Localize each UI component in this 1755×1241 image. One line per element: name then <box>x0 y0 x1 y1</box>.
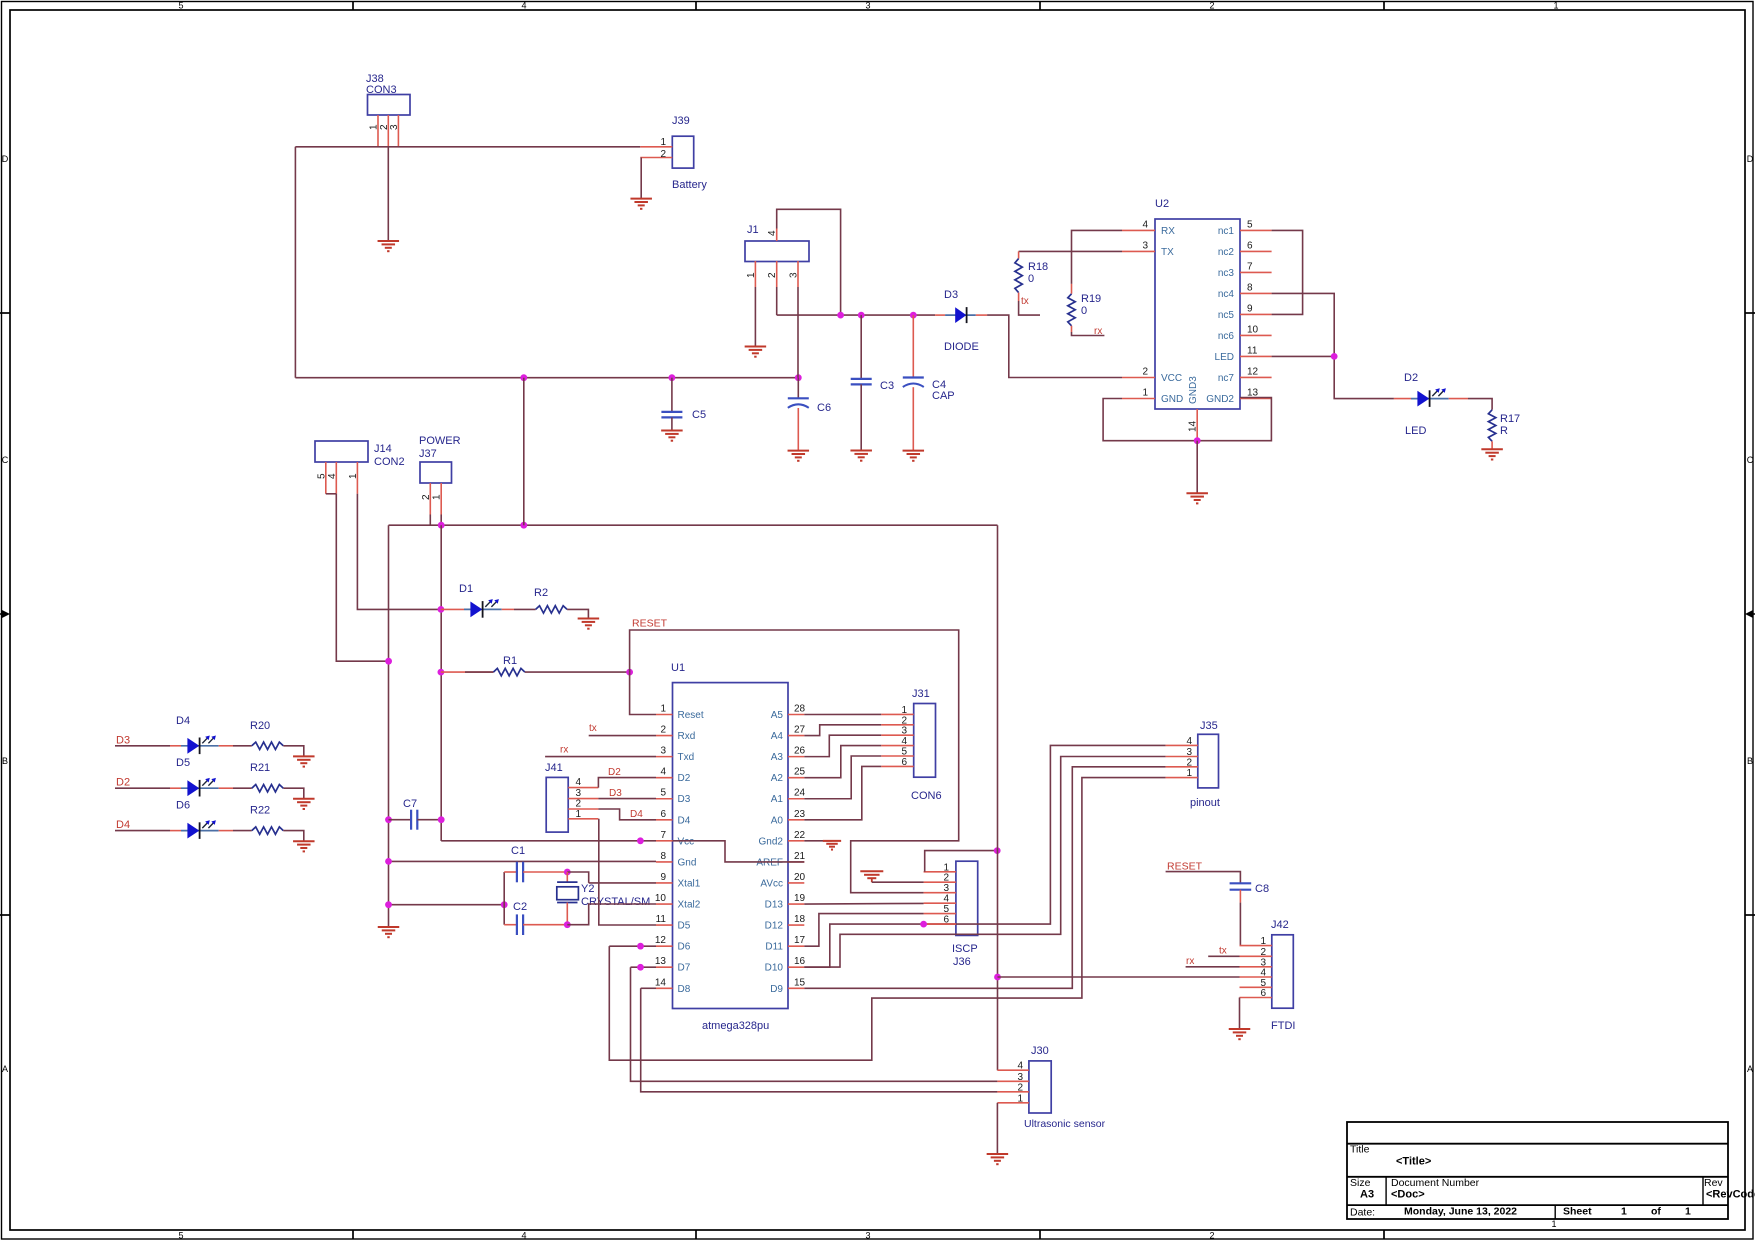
svg-text:4: 4 <box>1017 1061 1023 1072</box>
svg-text:20: 20 <box>794 872 806 883</box>
ground below C4 <box>903 451 925 461</box>
connector J39 Battery box <box>672 115 707 191</box>
svg-text:3: 3 <box>901 726 907 737</box>
svg-text:1: 1 <box>432 494 443 500</box>
net label D4 led row <box>116 819 130 831</box>
svg-text:J35: J35 <box>1200 720 1218 732</box>
wire A0 to J31 pin6 <box>804 766 881 819</box>
svg-text:D4: D4 <box>678 815 691 826</box>
svg-text:2: 2 <box>1186 757 1192 768</box>
wire D6 net <box>609 945 656 947</box>
svg-text:7: 7 <box>660 830 666 841</box>
svg-text:R19: R19 <box>1081 293 1101 305</box>
svg-text:6: 6 <box>1247 240 1253 251</box>
wire D13 to ISCP pin4 <box>804 902 923 905</box>
svg-text:B: B <box>2 756 8 766</box>
svg-text:FTDI: FTDI <box>1271 1020 1295 1032</box>
svg-text:2: 2 <box>767 272 778 278</box>
wire A1 to J31 pin5 <box>804 756 881 799</box>
junction dot Y2 bottom <box>564 921 571 928</box>
svg-text:rx: rx <box>1094 326 1102 337</box>
wire R22 to ground <box>283 831 304 842</box>
svg-text:1: 1 <box>1186 768 1192 779</box>
U1 pin 21 AREF <box>756 851 805 869</box>
connector J41 box <box>545 762 568 832</box>
wire J1 pin4 loop <box>777 209 841 315</box>
U1 pin 18 D12 <box>765 914 806 932</box>
svg-text:11: 11 <box>1247 345 1258 356</box>
svg-text:15: 15 <box>794 977 806 988</box>
U2 pin 10 nc6 <box>1218 324 1272 342</box>
svg-text:5: 5 <box>178 1231 183 1241</box>
capacitor C1 <box>504 845 567 882</box>
junction dot C3 top <box>858 312 865 319</box>
net label RESET C8 <box>1167 861 1203 873</box>
wire U2 pin14 to ground <box>1196 441 1198 494</box>
svg-text:13: 13 <box>655 956 667 967</box>
svg-text:D: D <box>2 154 9 164</box>
svg-text:Xtal1: Xtal1 <box>678 878 701 889</box>
wire x523 vertical <box>523 378 525 526</box>
svg-text:3: 3 <box>865 1231 870 1241</box>
capacitor C6 <box>788 378 831 451</box>
svg-text:C: C <box>1747 455 1754 465</box>
svg-text:A: A <box>1747 1064 1753 1074</box>
svg-text:D2: D2 <box>116 777 130 789</box>
wire D7 to J30 pin3 <box>631 967 998 1081</box>
resistor R21 <box>250 762 283 792</box>
wire R2 to ground <box>567 609 588 618</box>
svg-text:21: 21 <box>794 851 806 862</box>
net label tx R18 <box>1021 296 1029 307</box>
junction dot rail-C5 <box>669 374 676 381</box>
junction dot J1pin4 loop <box>837 312 844 319</box>
wire J38 pin2 to ground <box>387 147 389 241</box>
wire ISCP pin2 to ground <box>872 881 924 883</box>
wire rx to U1 Txd <box>545 745 656 757</box>
wire D4 net J41 <box>598 809 656 820</box>
svg-text:4: 4 <box>1186 736 1192 747</box>
wire RX U2 <box>1072 230 1123 284</box>
svg-text:J37: J37 <box>419 448 437 460</box>
ISCP pin 2 <box>924 873 956 884</box>
wire U2 nc4 to LED net <box>1272 293 1394 398</box>
svg-text:4: 4 <box>767 230 778 236</box>
svg-text:8: 8 <box>1247 282 1253 293</box>
wire A4 to J31 pin2 <box>804 725 881 736</box>
svg-text:1: 1 <box>1685 1206 1691 1218</box>
svg-text:27: 27 <box>794 725 806 736</box>
svg-text:R: R <box>1500 425 1508 437</box>
J37 pin 1 <box>432 483 443 515</box>
wire J37 pin2 down <box>429 515 431 526</box>
J1 pin 3 <box>789 261 800 287</box>
svg-text:J31: J31 <box>912 688 930 700</box>
svg-text:R2: R2 <box>534 587 548 599</box>
svg-text:2: 2 <box>901 715 907 726</box>
connector ISCP J36 box <box>952 861 978 968</box>
svg-text:C6: C6 <box>817 402 831 414</box>
radio module U2 box <box>1155 198 1240 409</box>
wire J30 pin1 to ground <box>996 1103 998 1154</box>
svg-text:Date:: Date: <box>1350 1207 1375 1219</box>
resistor R19 <box>1068 284 1101 332</box>
svg-text:J41: J41 <box>545 762 563 774</box>
U1 pin 27 A4 <box>771 725 806 743</box>
U1 pin 6 D4 <box>656 809 691 827</box>
U1 pin 24 A1 <box>771 788 806 806</box>
svg-text:AREF: AREF <box>756 857 783 868</box>
capacitor C8 <box>1230 883 1269 903</box>
wire R1 right lead <box>525 671 630 673</box>
svg-text:6: 6 <box>901 757 907 768</box>
net label D2 led row <box>116 777 130 789</box>
svg-text:4: 4 <box>901 736 907 747</box>
U1 pin 23 A0 <box>771 809 806 827</box>
junction dot x388-J14 link <box>385 658 392 665</box>
ground right of R2 <box>578 619 600 629</box>
svg-text:A5: A5 <box>771 710 784 721</box>
junction dot Vcc row <box>637 837 644 844</box>
U1 pin 22 Gnd2 <box>759 830 806 848</box>
wire Gnd2 stub <box>804 840 832 842</box>
wire D5 net J41 <box>599 819 656 925</box>
wire U2 LED pin <box>1272 355 1335 357</box>
wire left vertical battery net <box>294 147 296 378</box>
svg-text:rx: rx <box>560 745 568 756</box>
J39 pin 1 <box>640 137 672 148</box>
svg-text:5: 5 <box>943 904 949 915</box>
svg-text:9: 9 <box>660 872 666 883</box>
junction dot x523 y525 <box>520 522 527 529</box>
svg-text:RESET: RESET <box>632 618 668 630</box>
U2 pin 5 nc1 <box>1218 219 1272 237</box>
svg-text:1: 1 <box>1551 1219 1556 1229</box>
junction dot rail-C6 <box>795 374 802 381</box>
wire D3 cathode to U2 VCC <box>987 315 1122 377</box>
svg-text:3: 3 <box>660 746 666 757</box>
wire R21 to ground <box>283 788 304 799</box>
svg-text:DIODE: DIODE <box>944 341 979 353</box>
svg-text:pinout: pinout <box>1190 797 1220 809</box>
J31 pin 5 <box>881 747 914 758</box>
resistor R17 <box>1488 410 1520 450</box>
ISCP pin 5 <box>924 904 956 915</box>
ground inverted ISCP pin2 <box>860 871 883 882</box>
svg-text:14: 14 <box>1188 420 1199 432</box>
svg-text:Battery: Battery <box>672 179 707 191</box>
wire VCC rail y378 <box>295 377 798 379</box>
svg-text:2: 2 <box>943 873 949 884</box>
svg-text:CON2: CON2 <box>374 456 405 468</box>
U1 pin 15 D9 <box>770 977 805 995</box>
wire J42 pin6 to ground <box>1239 998 1241 1030</box>
capacitor C7 <box>389 798 442 830</box>
junction dot J37 pin1 <box>438 522 445 529</box>
svg-text:Xtal2: Xtal2 <box>678 900 701 911</box>
svg-text:tx: tx <box>1021 296 1029 307</box>
ISCP pin 4 <box>924 894 956 905</box>
wire A2 to J31 pin4 <box>804 746 881 778</box>
U2 pin 7 nc3 <box>1218 261 1272 279</box>
J14 pin 1 <box>348 462 359 494</box>
svg-text:VCC: VCC <box>1161 373 1182 384</box>
wire rx J42 <box>1186 956 1240 967</box>
junction dot D1 net <box>438 606 445 613</box>
svg-text:16: 16 <box>794 956 806 967</box>
svg-text:Size: Size <box>1350 1177 1371 1189</box>
wire J42 pin4 long <box>998 976 1240 978</box>
wire ISCP pin1 up <box>925 851 998 872</box>
wire xtal1 leg <box>589 882 656 884</box>
junction dot D6 row <box>637 943 644 950</box>
junction dot Gnd row <box>385 858 392 865</box>
J42 pin 2 <box>1240 947 1272 958</box>
svg-text:3: 3 <box>1017 1072 1023 1083</box>
U1 pin 2 Rxd <box>656 725 695 743</box>
diode D3 <box>935 289 987 353</box>
U2 pin 1 GND <box>1122 388 1183 406</box>
svg-text:C1: C1 <box>511 845 525 857</box>
svg-text:3: 3 <box>575 788 581 799</box>
junction dot C7 left <box>385 816 392 823</box>
wire gnd link crystal <box>389 904 505 906</box>
svg-text:0: 0 <box>1028 273 1034 285</box>
wire D3 net J41 <box>598 788 656 799</box>
junction dot gnd link right <box>501 901 508 908</box>
J38 pin 3 <box>389 115 400 147</box>
svg-text:Document Number: Document Number <box>1391 1177 1480 1189</box>
svg-text:rx: rx <box>1186 956 1194 967</box>
svg-text:R17: R17 <box>1500 413 1520 425</box>
title block <box>1347 1122 1755 1219</box>
svg-text:D5: D5 <box>678 921 691 932</box>
svg-text:Title: Title <box>1350 1144 1370 1156</box>
svg-text:2: 2 <box>1209 1 1214 11</box>
svg-text:D2: D2 <box>1404 372 1418 384</box>
svg-text:28: 28 <box>794 704 806 715</box>
microcontroller U1 atmega328pu <box>671 662 788 1032</box>
svg-text:1: 1 <box>1142 388 1148 399</box>
led D6 <box>176 800 219 839</box>
svg-text:Gnd2: Gnd2 <box>759 836 784 847</box>
wire D2 to R17 <box>1449 399 1492 410</box>
svg-text:2: 2 <box>1209 1231 1214 1241</box>
svg-text:2: 2 <box>660 725 666 736</box>
svg-text:J39: J39 <box>672 115 690 127</box>
J31 pin 3 <box>881 726 914 737</box>
svg-text:3: 3 <box>1142 240 1148 251</box>
J42 pin 4 <box>1240 968 1272 979</box>
connector J30 box <box>1024 1045 1106 1130</box>
resistor R2 <box>534 587 567 613</box>
J31 pin 2 <box>881 715 914 726</box>
svg-text:A: A <box>2 1064 8 1074</box>
svg-text:1: 1 <box>575 809 581 820</box>
svg-text:D6: D6 <box>678 942 691 953</box>
J35 pin 1 <box>1166 768 1198 779</box>
ground below R22 <box>293 841 315 851</box>
svg-text:D12: D12 <box>765 921 784 932</box>
svg-text:tx: tx <box>1219 946 1227 957</box>
U1 pin 13 D7 <box>655 956 691 974</box>
led D2 <box>1394 372 1449 437</box>
junction dot U2 pin14 <box>1194 437 1201 444</box>
svg-text:17: 17 <box>794 935 806 946</box>
junction dot RESET corner <box>626 669 633 676</box>
svg-text:D3: D3 <box>678 794 691 805</box>
svg-text:2: 2 <box>575 799 581 810</box>
ISCP pin 1 <box>924 862 956 873</box>
wire D6 to J35 pin1 <box>609 778 1165 1061</box>
junction dot ISCP pin6 <box>920 921 927 928</box>
connector J1 box <box>745 224 809 262</box>
J35 pin 4 <box>1166 736 1198 747</box>
J42 pin 6 <box>1240 988 1272 999</box>
led D5 <box>176 757 219 796</box>
svg-text:R18: R18 <box>1028 261 1048 273</box>
wire D7 net <box>631 966 657 968</box>
svg-text:6: 6 <box>1260 988 1266 999</box>
J31 pin 4 <box>881 736 914 747</box>
U1 pin 8 Gnd <box>656 851 696 869</box>
wire J39 pin2 to ground <box>640 158 642 199</box>
U2 pin 13 GND2 <box>1206 387 1271 405</box>
U1 pin 5 D3 <box>656 788 691 806</box>
svg-text:D10: D10 <box>765 963 784 974</box>
wire RESET to U1 pin1 <box>630 672 656 714</box>
wire tx to U1 Rxd <box>589 723 656 736</box>
svg-text:Reset: Reset <box>678 710 704 721</box>
svg-text:GND3: GND3 <box>1188 376 1199 404</box>
capacitor C2 <box>504 901 567 935</box>
wire D4 lead <box>115 830 181 832</box>
svg-text:1: 1 <box>1260 936 1266 947</box>
svg-text:19: 19 <box>794 893 806 904</box>
svg-text:R21: R21 <box>250 762 270 774</box>
wire C8 to J42 pin1 <box>1239 903 1241 946</box>
J42 pin 5 <box>1240 978 1272 989</box>
svg-text:nc6: nc6 <box>1218 331 1235 342</box>
svg-text:10: 10 <box>655 893 667 904</box>
wire A5 to J31 pin1 <box>804 713 881 715</box>
svg-text:5: 5 <box>316 473 327 479</box>
wire D8 to J30 pin2 <box>641 988 998 1092</box>
svg-text:1: 1 <box>1017 1093 1023 1104</box>
svg-text:nc4: nc4 <box>1218 289 1235 300</box>
wire R20 to ground <box>283 746 304 757</box>
wire D5 to R21 <box>219 787 252 789</box>
ground at U1 Gnd2 <box>823 841 841 850</box>
svg-text:GND2: GND2 <box>1206 394 1234 405</box>
svg-text:<Doc>: <Doc> <box>1391 1189 1425 1201</box>
svg-text:Rxd: Rxd <box>678 731 696 742</box>
junction dot x997 y977 <box>994 974 1001 981</box>
ground below R20 <box>293 756 315 766</box>
capacitor C3 <box>851 315 894 450</box>
ground below J38 pin 2 <box>378 241 400 251</box>
ISCP pin 6 <box>924 915 956 926</box>
resistor R1 <box>493 655 525 676</box>
svg-text:A2: A2 <box>771 773 784 784</box>
junction dot C7 right <box>438 816 445 823</box>
svg-text:A3: A3 <box>1360 1189 1374 1201</box>
ground below J42 <box>1229 1029 1251 1039</box>
wire D2 net J41 <box>598 767 656 788</box>
U2 pin 9 nc5 <box>1218 303 1272 321</box>
svg-text:23: 23 <box>794 809 806 820</box>
svg-text:D3: D3 <box>609 788 622 799</box>
svg-text:RX: RX <box>1161 226 1175 237</box>
junction dot R1 left <box>438 669 445 676</box>
U1 pin 10 Xtal2 <box>655 893 701 911</box>
svg-text:AVcc: AVcc <box>760 878 783 889</box>
led D4 <box>176 715 219 754</box>
svg-text:4: 4 <box>521 1 526 11</box>
svg-text:J36: J36 <box>953 956 971 968</box>
ground below C3 <box>850 451 872 461</box>
svg-text:C3: C3 <box>880 380 894 392</box>
svg-text:1: 1 <box>660 137 666 148</box>
J42 pin 3 <box>1240 957 1272 968</box>
ground below R21 <box>293 799 315 809</box>
svg-text:2: 2 <box>1142 367 1148 378</box>
svg-text:24: 24 <box>794 788 806 799</box>
wire U2 nc1-nc5 link <box>1272 230 1303 314</box>
svg-text:12: 12 <box>655 935 667 946</box>
wire crystal loop left <box>503 872 505 925</box>
J30 pin 1 <box>997 1093 1029 1104</box>
svg-text:LED: LED <box>1215 352 1234 363</box>
wire tx J42 <box>1208 946 1239 957</box>
svg-text:nc2: nc2 <box>1218 247 1235 258</box>
wire J1 pin3 to C6 <box>797 287 799 378</box>
wire net VIN y315 <box>777 314 935 316</box>
wire A3 to J31 pin3 <box>804 735 881 756</box>
junction dot ISCP pin1 net <box>994 847 1001 854</box>
svg-text:D: D <box>1747 154 1754 164</box>
svg-text:3: 3 <box>943 883 949 894</box>
U1 pin 20 AVcc <box>760 872 805 890</box>
junction dot rail-x523 <box>520 374 527 381</box>
svg-text:A0: A0 <box>771 815 784 826</box>
svg-text:3: 3 <box>789 272 800 278</box>
ISCP pin 6 red overlay <box>924 923 956 925</box>
svg-text:5: 5 <box>1247 219 1253 230</box>
svg-text:C7: C7 <box>403 798 417 810</box>
svg-text:D2: D2 <box>608 767 621 778</box>
wire D10 path <box>804 757 1165 968</box>
wire D1 to R2 <box>502 608 536 610</box>
svg-text:U2: U2 <box>1155 198 1169 210</box>
wire J14 pin4 down <box>336 494 388 661</box>
led D1 <box>441 583 502 618</box>
svg-text:4: 4 <box>1142 219 1148 230</box>
U1 pin 16 D10 <box>765 956 806 974</box>
svg-text:CON3: CON3 <box>366 84 397 96</box>
U1 pin 28 A5 <box>771 704 806 722</box>
J42 pin 1 <box>1240 936 1272 947</box>
svg-text:4: 4 <box>943 894 949 905</box>
net label D3 led row <box>116 734 130 746</box>
U1 pin 11 D5 <box>656 914 691 932</box>
U2 pin 12 nc7 <box>1218 366 1272 384</box>
wire D9 to J35 pin2 <box>804 767 1165 988</box>
svg-text:1: 1 <box>660 704 666 715</box>
svg-text:C8: C8 <box>1255 883 1269 895</box>
svg-text:C5: C5 <box>692 409 706 421</box>
svg-text:J30: J30 <box>1031 1045 1049 1057</box>
